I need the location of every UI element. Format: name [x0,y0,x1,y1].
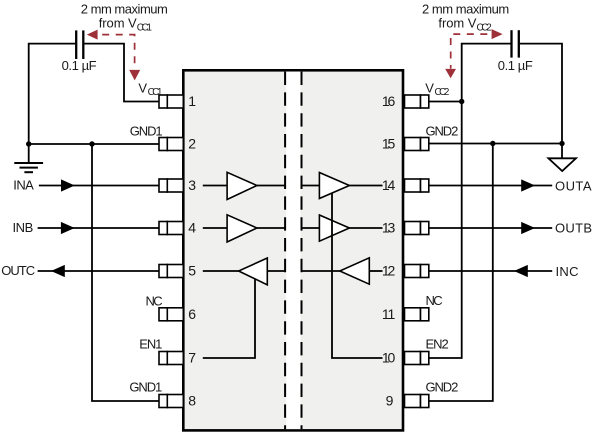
svg-text:CC2: CC2 [435,87,450,98]
svg-text:2 mm maximum: 2 mm maximum [81,2,168,17]
svg-text:NC: NC [426,293,443,308]
svg-text:CC1: CC1 [148,87,163,98]
svg-text:from V: from V [99,16,137,31]
svg-text:INC: INC [556,264,579,279]
svg-text:INB: INB [13,220,34,235]
svg-text:from V: from V [438,16,476,31]
svg-text:1: 1 [188,93,196,109]
svg-text:GND2: GND2 [426,123,459,138]
svg-text:EN2: EN2 [426,336,449,351]
svg-text:INA: INA [13,178,34,193]
svg-text:GND1: GND1 [130,123,163,138]
svg-text:12: 12 [382,263,396,279]
svg-text:2 mm maximum: 2 mm maximum [422,2,509,17]
svg-text:3: 3 [188,177,196,193]
svg-text:11: 11 [382,306,396,322]
svg-text:2: 2 [188,136,196,152]
svg-text:9: 9 [386,393,394,409]
svg-text:V: V [138,80,147,95]
svg-text:8: 8 [188,393,196,409]
svg-text:OUTC: OUTC [1,263,35,278]
svg-text:0.1 µF: 0.1 µF [498,58,533,73]
svg-text:14: 14 [382,177,396,193]
svg-text:4: 4 [188,220,196,236]
svg-text:NC: NC [146,293,163,308]
svg-text:0.1 µF: 0.1 µF [62,58,97,73]
svg-text:OUTA: OUTA [555,178,592,193]
svg-text:5: 5 [188,263,196,279]
svg-text:CC2: CC2 [477,22,492,33]
svg-text:15: 15 [382,136,396,152]
svg-text:GND2: GND2 [426,379,459,394]
svg-text:GND1: GND1 [129,379,162,394]
svg-text:6: 6 [188,306,196,322]
svg-text:7: 7 [188,350,196,366]
svg-text:EN1: EN1 [139,336,162,351]
svg-text:V: V [425,80,434,95]
svg-text:13: 13 [382,220,396,236]
svg-text:CC1: CC1 [137,22,152,33]
svg-text:OUTB: OUTB [555,221,592,236]
svg-text:10: 10 [382,350,396,366]
svg-text:16: 16 [382,93,396,109]
